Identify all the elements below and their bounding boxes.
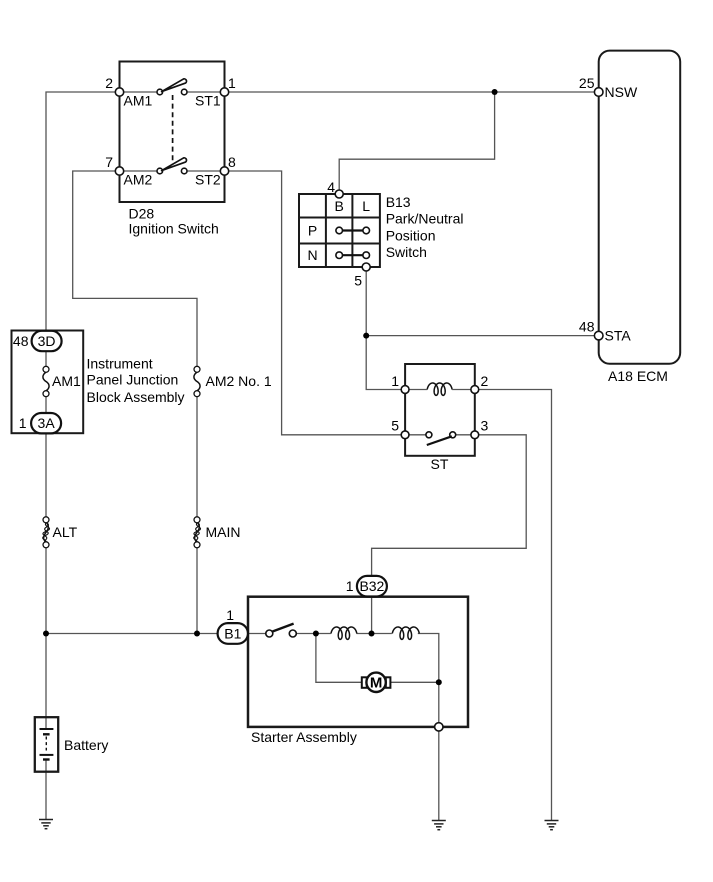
node junction motor branch left: [313, 631, 319, 637]
switch contact AM1-ST1 left: [157, 89, 163, 95]
battery plate long 1: [40, 728, 54, 730]
wire AM1 to left rail top: [46, 92, 120, 369]
wire MAIN link down to bottom junction: [196, 545, 198, 634]
relay switch contact left: [426, 432, 432, 438]
wire left rail lower (ALT link to battery): [45, 545, 47, 729]
wire ST1 to NSW: [225, 91, 599, 93]
terminal 48 STA: [594, 331, 603, 340]
battery plate long 2: [40, 754, 54, 756]
starter switch contact right: [289, 630, 296, 637]
connector 3A oval: [31, 413, 61, 433]
terminal 1 ST1: [220, 88, 228, 96]
svg-text:Position: Position: [386, 228, 436, 244]
svg-text:STA: STA: [605, 328, 632, 344]
svg-text:3A: 3A: [38, 415, 56, 431]
terminal 5 relay: [401, 431, 409, 439]
wire relay pin 2 to right ground: [475, 390, 552, 821]
ground relay circuit: [545, 821, 559, 830]
terminal 1 relay: [401, 386, 409, 394]
svg-text:P: P: [308, 223, 317, 239]
svg-text:3D: 3D: [38, 333, 56, 349]
starter pull-in coil: [331, 627, 357, 639]
svg-text:48: 48: [13, 333, 29, 349]
svg-text:1: 1: [391, 373, 399, 389]
wire B32 into starter box: [371, 597, 373, 634]
wire ignition internal stubs: [120, 92, 225, 171]
svg-text:AM1: AM1: [52, 373, 81, 389]
wire starter row: switch to coil 1: [296, 633, 331, 635]
svg-text:NSW: NSW: [605, 84, 638, 100]
terminal 8 ST2: [220, 167, 228, 175]
svg-text:MAIN: MAIN: [206, 524, 241, 540]
fuse AM1: [43, 366, 49, 396]
switch lever AM1-ST1: [162, 79, 187, 92]
svg-text:B: B: [335, 198, 344, 214]
relay internal wires: [405, 390, 475, 435]
starter bottom terminal: [435, 723, 443, 731]
svg-text:25: 25: [579, 75, 595, 91]
motor M: [362, 673, 391, 692]
ground battery: [39, 820, 53, 829]
terminal 2 AM1: [115, 88, 123, 96]
svg-text:5: 5: [354, 273, 362, 289]
svg-text:48: 48: [579, 319, 595, 335]
wire motor branch right: [390, 681, 438, 683]
node junction NSW branch: [492, 89, 498, 95]
wire starter terminal to ground: [438, 731, 440, 820]
node junction motor branch right: [436, 679, 442, 685]
svg-text:1: 1: [226, 607, 234, 623]
svg-text:Ignition Switch: Ignition Switch: [129, 221, 219, 237]
svg-text:Battery: Battery: [64, 737, 108, 753]
svg-text:Starter Assembly: Starter Assembly: [251, 729, 357, 745]
wire motor branch left: [316, 634, 362, 683]
svg-text:ST2: ST2: [195, 172, 221, 188]
node junction battery rail: [43, 631, 49, 637]
terminal 2 relay: [471, 386, 479, 394]
junction block box: [12, 331, 84, 434]
wire starter row: box edge to switch: [248, 633, 266, 635]
terminal 25 NSW: [594, 88, 603, 97]
relay coil: [427, 383, 452, 395]
terminal 4 B13: [335, 190, 343, 198]
wire B13 pin 5 down to relay pin 1: [366, 267, 405, 390]
svg-text:ST: ST: [431, 456, 449, 472]
svg-text:B1: B1: [224, 626, 241, 642]
B13 contact N row: [336, 252, 370, 259]
svg-text:1: 1: [19, 415, 27, 431]
svg-text:B32: B32: [359, 578, 384, 594]
switch contact AM2-ST2 right: [181, 168, 187, 174]
fuse AM2 No.1: [194, 366, 200, 396]
switch contact AM1-ST1 right: [181, 89, 187, 95]
connector B32 oval: [357, 576, 387, 597]
svg-text:1: 1: [346, 578, 354, 594]
mechanical link dashed: [172, 95, 174, 167]
wire battery rail to B1: [46, 633, 218, 635]
connector B1 oval: [218, 623, 248, 644]
wire AM2 to AM2 No.1 fuse rail: [73, 171, 197, 369]
svg-text:4: 4: [327, 179, 335, 195]
wire relay pin 3 to B32: [372, 435, 527, 576]
svg-text:A18 ECM: A18 ECM: [608, 368, 668, 384]
svg-text:Instrument: Instrument: [87, 356, 153, 372]
fusible link ALT: [43, 517, 50, 548]
svg-text:M: M: [370, 675, 383, 692]
svg-text:Panel Junction: Panel Junction: [87, 372, 179, 388]
svg-text:B13: B13: [386, 194, 411, 210]
svg-text:AM2 No. 1: AM2 No. 1: [206, 373, 272, 389]
battery dashed link: [45, 737, 47, 751]
svg-text:Switch: Switch: [386, 244, 427, 260]
B13 contact P row: [336, 227, 370, 234]
battery plate short 2: [43, 758, 50, 760]
svg-text:8: 8: [228, 154, 236, 170]
wire AM2 No.1 fuse to MAIN link: [196, 394, 198, 520]
B13 grid box: [299, 194, 380, 267]
wire left rail mid (fuse AM1 to ALT link): [45, 394, 47, 520]
svg-text:3: 3: [481, 418, 489, 434]
svg-text:2: 2: [481, 373, 489, 389]
terminal 5 B13: [362, 263, 370, 271]
wire node to STA: [366, 335, 599, 337]
wire ST2 to relay pin 5: [225, 171, 406, 435]
switch contact AM2-ST2 left: [157, 168, 163, 174]
ECM A18 box: [599, 51, 681, 364]
svg-text:Park/Neutral: Park/Neutral: [386, 211, 464, 227]
relay switch lever: [427, 436, 452, 445]
starter switch lever: [272, 624, 293, 632]
svg-text:Block Assembly: Block Assembly: [87, 389, 185, 405]
starter switch contact left: [266, 630, 273, 637]
terminal 3 relay: [471, 431, 479, 439]
starter assembly box: [248, 597, 468, 727]
svg-text:AM2: AM2: [124, 172, 153, 188]
svg-text:N: N: [307, 247, 317, 263]
svg-text:1: 1: [228, 75, 236, 91]
svg-text:ST1: ST1: [195, 93, 221, 109]
svg-text:7: 7: [105, 154, 113, 170]
node junction MAIN rail: [194, 631, 200, 637]
ignition switch D28 box: [120, 62, 225, 203]
svg-text:ALT: ALT: [53, 524, 78, 540]
svg-text:D28: D28: [129, 206, 155, 222]
svg-text:AM1: AM1: [124, 93, 153, 109]
ground starter: [432, 821, 446, 830]
fusible link MAIN: [194, 517, 201, 548]
svg-text:5: 5: [391, 418, 399, 434]
battery box: [35, 717, 58, 772]
svg-text:L: L: [362, 198, 370, 214]
terminal 7 AM2: [115, 167, 123, 175]
node junction STA branch: [363, 333, 369, 339]
wire starter row: coil1 to coil2: [357, 633, 392, 635]
battery plate short 1: [43, 733, 50, 735]
relay switch contact right: [450, 432, 456, 438]
node junction B32 drop: [369, 631, 375, 637]
svg-text:2: 2: [105, 75, 113, 91]
wire starter row: coil2 to right drop: [418, 634, 439, 723]
starter hold-in coil: [392, 627, 419, 639]
relay ST box: [405, 364, 475, 456]
connector 3D oval: [32, 331, 62, 351]
wire battery bottom to ground: [45, 760, 47, 820]
switch lever AM2-ST2: [162, 158, 187, 171]
wire NSW branch down to B13 pin 4: [339, 92, 494, 194]
